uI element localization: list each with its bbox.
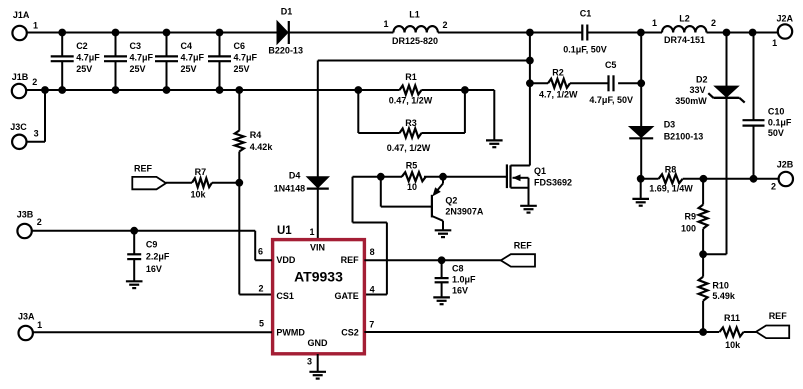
- svg-text:2: 2: [259, 284, 264, 294]
- U1 pin 2 CS1: [259, 284, 294, 301]
- svg-text:350mW: 350mW: [675, 96, 707, 106]
- svg-text:R3: R3: [405, 118, 417, 128]
- svg-text:J3A: J3A: [18, 312, 35, 322]
- svg-text:J1A: J1A: [13, 10, 30, 20]
- svg-text:J3C: J3C: [10, 122, 27, 132]
- wire R7 to R4: [212, 182, 239, 184]
- capacitor C4: [155, 29, 205, 94]
- wire R1 to node: [421, 89, 465, 91]
- inductor L2: [652, 13, 716, 45]
- wire top rail J1A to D1: [27, 32, 277, 34]
- svg-text:4.7μF: 4.7μF: [181, 53, 205, 63]
- svg-text:4.7μF: 4.7μF: [76, 53, 100, 63]
- svg-text:D1: D1: [281, 7, 293, 17]
- connector J2A: [772, 14, 793, 49]
- ground (D3/R8): [632, 179, 649, 206]
- connector J2B: [771, 160, 794, 192]
- svg-text:AT9933: AT9933: [294, 268, 343, 284]
- node R1 left: [354, 86, 362, 94]
- connector J1A: [12, 10, 38, 40]
- wire to R2: [530, 82, 548, 84]
- svg-text:4.42k: 4.42k: [250, 142, 274, 152]
- IC U1 outline: [273, 225, 365, 354]
- node R5 right: [439, 173, 447, 181]
- svg-text:25V: 25V: [234, 64, 250, 74]
- svg-text:0.47, 1/2W: 0.47, 1/2W: [389, 96, 433, 106]
- svg-text:R10: R10: [712, 281, 729, 291]
- U1 pin 8 REF: [341, 247, 375, 265]
- node R5 left: [377, 173, 385, 181]
- capacitor C2: [51, 29, 101, 94]
- node C8 tap: [438, 256, 446, 264]
- U1 pin 4 GATE: [334, 284, 374, 301]
- transistor Q2: [432, 177, 484, 231]
- svg-text:4.7μF, 50V: 4.7μF, 50V: [589, 95, 633, 105]
- svg-text:Q1: Q1: [534, 166, 546, 176]
- capacitor C6: [208, 29, 258, 94]
- wire Q2 base route: [381, 177, 432, 207]
- svg-text:J2B: J2B: [777, 160, 794, 170]
- svg-text:16V: 16V: [452, 285, 468, 295]
- wire VIN branch vertical: [317, 61, 319, 177]
- inductor L1: [383, 10, 447, 46]
- node R10/R11: [699, 328, 707, 336]
- svg-text:5: 5: [259, 318, 264, 328]
- resistor R11: [720, 313, 744, 350]
- transistor Q1: [507, 164, 572, 205]
- net label REF (C8): [501, 241, 535, 267]
- wire D1 to L1: [290, 32, 394, 34]
- ground (U1 GND): [309, 354, 326, 379]
- svg-text:GATE: GATE: [334, 291, 358, 301]
- node J3C junction: [41, 86, 49, 94]
- U1 pin 7 CS2: [341, 319, 374, 337]
- wire D2 to rail: [726, 33, 728, 87]
- node VIN branch: [526, 57, 534, 65]
- wire C1 to L2: [587, 32, 662, 34]
- svg-text:REF: REF: [134, 164, 153, 174]
- svg-text:L1: L1: [409, 10, 420, 20]
- wire J3A to PWMD: [33, 331, 272, 333]
- wire rail to R1: [358, 89, 399, 91]
- wire to sense ground: [465, 90, 494, 140]
- connector J3B: [17, 209, 42, 238]
- resistor R9: [681, 179, 708, 255]
- svg-text:REF: REF: [514, 241, 533, 251]
- svg-text:R7: R7: [195, 167, 207, 177]
- svg-text:FDS3692: FDS3692: [534, 177, 572, 187]
- node R1 right: [461, 86, 469, 94]
- svg-text:2: 2: [37, 217, 42, 227]
- capacitor C9: [127, 231, 170, 282]
- wire R2 to C5: [570, 82, 609, 84]
- svg-text:4: 4: [370, 284, 375, 294]
- svg-text:J1B: J1B: [12, 72, 29, 82]
- node C9 tap: [130, 227, 138, 235]
- svg-text:C9: C9: [146, 239, 158, 249]
- svg-text:4.7μF: 4.7μF: [130, 53, 154, 63]
- node D3-top: [637, 29, 645, 37]
- svg-text:R9: R9: [684, 212, 696, 222]
- svg-text:C3: C3: [130, 41, 142, 51]
- svg-text:R1: R1: [405, 72, 417, 82]
- connector J3A: [18, 312, 42, 341]
- resistor R3: [387, 118, 431, 153]
- wire D3 line upper: [640, 33, 642, 127]
- node switch-top: [526, 29, 534, 37]
- node R8 right: [700, 175, 708, 183]
- svg-text:1: 1: [652, 18, 657, 28]
- svg-text:B220-13: B220-13: [268, 45, 303, 55]
- svg-text:C1: C1: [580, 8, 592, 18]
- svg-text:0.1μF, 50V: 0.1μF, 50V: [563, 44, 607, 54]
- resistor R2: [539, 67, 578, 99]
- wire D4 to VIN pin: [317, 189, 319, 239]
- node R9/R10: [699, 250, 707, 258]
- svg-text:PWMD: PWMD: [276, 328, 305, 338]
- svg-text:GND: GND: [308, 338, 329, 348]
- wire D2 bottom link: [703, 98, 726, 254]
- U1 pin 3 GND: [307, 338, 328, 367]
- resistor R1: [389, 72, 433, 106]
- svg-text:16V: 16V: [146, 264, 162, 274]
- wire R4 to CS1: [239, 183, 272, 295]
- U1 pin 5 PWMD: [259, 318, 305, 337]
- svg-text:U1: U1: [277, 225, 292, 237]
- svg-text:C2: C2: [76, 41, 88, 51]
- svg-text:0.1μF: 0.1μF: [768, 117, 792, 127]
- svg-text:100: 100: [681, 223, 696, 233]
- svg-text:R4: R4: [250, 130, 262, 140]
- svg-text:7: 7: [369, 319, 374, 329]
- wire gate net: [443, 176, 507, 178]
- capacitor C10: [743, 33, 792, 179]
- wire R3 left leg: [358, 90, 399, 133]
- svg-text:R2: R2: [552, 67, 564, 77]
- node R2 branch: [526, 79, 534, 87]
- node R8 left: [637, 175, 645, 183]
- svg-text:5.49k: 5.49k: [712, 291, 736, 301]
- wire C5 to D3 line: [618, 82, 641, 84]
- svg-text:2: 2: [711, 18, 716, 28]
- svg-text:0.47, 1/2W: 0.47, 1/2W: [387, 143, 431, 153]
- svg-text:C8: C8: [452, 263, 464, 273]
- svg-text:10k: 10k: [725, 340, 741, 350]
- svg-text:R5: R5: [406, 161, 418, 171]
- wire R5 to node: [424, 176, 443, 178]
- svg-text:J2A: J2A: [777, 14, 794, 24]
- connector J3C: [10, 122, 38, 149]
- diode D3: [629, 120, 703, 142]
- wire J3C riser: [27, 90, 46, 142]
- U1 pin 1 VIN: [309, 227, 325, 252]
- svg-text:2N3907A: 2N3907A: [445, 207, 484, 217]
- capacitor C3: [104, 29, 154, 94]
- wire CS2 to R11: [364, 331, 719, 333]
- node D2-top: [723, 29, 731, 37]
- diode D4: [274, 171, 329, 194]
- node C5 right: [637, 79, 645, 87]
- svg-text:1: 1: [772, 38, 777, 48]
- svg-text:DR74-151: DR74-151: [664, 35, 705, 45]
- resistor R5: [402, 161, 426, 192]
- wire switch node vertical: [529, 33, 531, 166]
- wire second rail: [26, 89, 358, 91]
- svg-text:D3: D3: [664, 120, 676, 130]
- svg-text:3: 3: [307, 357, 312, 367]
- wire R3 right leg: [421, 90, 465, 133]
- connector J1B: [12, 72, 38, 98]
- resistor R10: [699, 254, 736, 332]
- wire GATE route: [353, 177, 403, 295]
- svg-text:1: 1: [383, 19, 388, 29]
- svg-text:1: 1: [37, 320, 42, 330]
- diode D1: [268, 7, 303, 56]
- svg-text:REF: REF: [341, 255, 360, 265]
- capacitor C1: [563, 8, 607, 54]
- ground (C9): [126, 281, 143, 288]
- svg-text:L2: L2: [679, 13, 690, 23]
- capacitor C5: [589, 60, 633, 105]
- svg-text:B2100-13: B2100-13: [664, 131, 704, 141]
- svg-text:C10: C10: [768, 107, 785, 117]
- capacitor C8: [435, 260, 476, 297]
- svg-text:2: 2: [771, 181, 776, 191]
- ground (Q2): [435, 230, 452, 237]
- svg-text:10: 10: [407, 182, 417, 192]
- node C10 bottom: [750, 175, 758, 183]
- svg-text:J3B: J3B: [17, 209, 34, 219]
- U1 name: [294, 268, 343, 284]
- svg-text:8: 8: [370, 247, 375, 257]
- resistor R8: [641, 164, 694, 193]
- svg-text:6: 6: [258, 247, 263, 257]
- wire R8 to J2B: [683, 178, 779, 180]
- svg-text:D2: D2: [696, 75, 708, 85]
- svg-text:1: 1: [309, 227, 314, 237]
- wire R11 to flag: [744, 331, 757, 333]
- svg-text:REF: REF: [769, 311, 788, 321]
- svg-text:DR125-820: DR125-820: [392, 36, 438, 46]
- svg-text:25V: 25V: [130, 64, 146, 74]
- resistor R7: [190, 167, 212, 200]
- U1 pin 6 VDD: [258, 247, 296, 265]
- svg-text:CS2: CS2: [341, 328, 359, 338]
- svg-text:R11: R11: [724, 313, 740, 323]
- svg-text:VDD: VDD: [276, 255, 296, 265]
- node C10-top: [749, 29, 757, 37]
- svg-text:10k: 10k: [190, 189, 206, 199]
- wire REF pin to flag: [364, 259, 500, 261]
- node R7 junction: [235, 179, 243, 187]
- svg-text:C6: C6: [234, 41, 246, 51]
- svg-text:1N4148: 1N4148: [274, 184, 306, 194]
- resistor R4: [235, 86, 274, 183]
- net label REF (R7): [132, 164, 166, 190]
- svg-text:CS1: CS1: [276, 291, 294, 301]
- wire REF to R7: [166, 182, 192, 184]
- svg-text:4.7, 1/2W: 4.7, 1/2W: [539, 90, 578, 100]
- svg-text:Q2: Q2: [445, 195, 457, 205]
- wire D3 to R8: [640, 138, 642, 178]
- svg-text:25V: 25V: [181, 64, 197, 74]
- wire L2 to J2A: [707, 32, 778, 34]
- svg-text:2: 2: [32, 77, 37, 87]
- svg-text:1.69, 1/4W: 1.69, 1/4W: [649, 184, 693, 194]
- svg-text:R8: R8: [665, 164, 677, 174]
- svg-text:50V: 50V: [768, 128, 784, 138]
- svg-text:C4: C4: [181, 41, 193, 51]
- svg-text:2.2μF: 2.2μF: [146, 252, 170, 262]
- svg-text:25V: 25V: [76, 64, 92, 74]
- svg-text:VIN: VIN: [310, 243, 325, 253]
- svg-text:2: 2: [443, 20, 448, 30]
- wire VIN branch horizontal: [318, 60, 530, 62]
- svg-text:C5: C5: [605, 60, 617, 70]
- wire J3B to VDD: [32, 231, 272, 261]
- svg-text:1.0μF: 1.0μF: [452, 275, 476, 285]
- ground (C8): [433, 297, 450, 304]
- ground (Q1): [520, 206, 537, 213]
- net label REF (R11): [756, 311, 789, 338]
- svg-text:3: 3: [34, 129, 39, 139]
- svg-text:1: 1: [33, 21, 38, 31]
- svg-text:D4: D4: [289, 171, 301, 181]
- wire L1 to C1: [438, 32, 582, 34]
- ground (R1/R3): [486, 140, 503, 147]
- svg-text:33V: 33V: [689, 85, 705, 95]
- svg-text:4.7μF: 4.7μF: [234, 53, 258, 63]
- zener D2: [675, 75, 744, 107]
